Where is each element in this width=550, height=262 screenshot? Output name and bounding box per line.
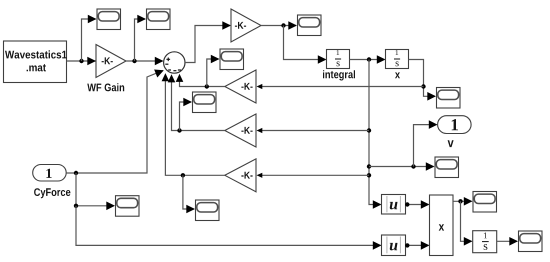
source block Wavestatics1.mat <box>4 41 67 83</box>
wire u2 to product <box>406 241 430 250</box>
gain WF Gain <box>87 45 126 92</box>
node dot after u1 <box>405 202 409 206</box>
integrator block integral (1/s) <box>323 50 355 81</box>
wire Wavestatics1 to WF Gain <box>67 57 97 66</box>
scope Scope1 <box>97 9 121 30</box>
node junction on K1 output <box>205 84 209 88</box>
node junction on CyForce riser <box>74 204 78 208</box>
scope Scope2 <box>147 9 171 30</box>
node junction on CyForce output <box>74 171 78 175</box>
gain K top <box>231 9 261 42</box>
abs block u1 <box>382 195 406 215</box>
sum block <box>164 52 185 73</box>
node junction position feedback <box>421 84 425 88</box>
wire WF Gain to sum <box>126 57 164 66</box>
wire gain K3 output to sum bottom input 1 <box>162 73 225 175</box>
abs block u2 <box>382 235 406 256</box>
node junction on K3 output <box>181 173 185 177</box>
scope ScopeC <box>196 200 220 221</box>
scope ScopeF <box>519 231 543 252</box>
node junction on K2 output <box>177 128 181 132</box>
node junction on top gain output <box>281 23 285 27</box>
node junction to v riser <box>411 164 415 168</box>
wire product to scope ScopeE <box>453 197 473 206</box>
wire branch up to scope ScopeA <box>207 55 220 87</box>
scope ScopeA <box>220 49 244 70</box>
scope ScopeD <box>116 196 140 217</box>
wire CyForce down to scope ScopeD <box>76 173 115 210</box>
wire CyForce to sum diagonal input <box>66 66 165 173</box>
gain K2 (left pointing) <box>225 114 256 147</box>
input port CyForce <box>33 165 71 199</box>
wire velocity to gain K2 <box>257 128 370 133</box>
wire branch up to scope Scope1 <box>82 15 97 61</box>
node junction velocity to gain K2 <box>367 128 371 132</box>
node dot after u2 <box>405 243 409 247</box>
wire position feedback to gain K1 <box>257 84 424 89</box>
scope ScopeB <box>193 92 217 113</box>
wire gain K2 output to sum bottom input 2 <box>168 74 225 130</box>
wire branch up to scope ScopeB <box>180 98 193 131</box>
wire up to output port v <box>414 120 438 166</box>
node junction on product output <box>458 199 462 203</box>
node junction on WF Gain output <box>132 59 136 63</box>
wire x output down to scope Scope4 <box>409 60 437 101</box>
wire top gain to scope Scope3 <box>261 21 297 30</box>
wire velocity riser to abs u1 <box>369 60 382 209</box>
node junction on Wavestatics output <box>79 59 83 63</box>
wire u1 to product <box>406 200 430 209</box>
node junction velocity to v output <box>367 164 371 168</box>
wire branch down to scope ScopeC <box>183 175 195 213</box>
output port v <box>438 116 472 147</box>
wire 1/s to scope ScopeF <box>497 237 518 246</box>
scope Scope4 <box>437 88 461 109</box>
integrator block 1/s bottom <box>473 231 497 253</box>
wire velocity to scope Scope5 <box>369 162 435 171</box>
wire velocity to gain K3 <box>257 173 370 178</box>
wire product down to integrator 1/s <box>461 201 473 245</box>
wire branch up to scope Scope2 <box>135 15 147 61</box>
node junction velocity <box>367 57 371 61</box>
integrator block x (1/s) <box>386 50 409 79</box>
node junction velocity to gain K3 <box>367 173 371 177</box>
wire sum output up to top gain <box>185 21 231 62</box>
scope ScopeE <box>473 192 497 213</box>
wire top gain output down to integral <box>284 26 327 64</box>
gain K1 (left pointing) <box>225 70 256 103</box>
wire gain K1 output to sum bottom input 3 <box>176 74 225 87</box>
wire integral to integrator x <box>350 55 386 64</box>
wire CyForce bottom run to abs u2 <box>76 206 382 250</box>
scope Scope3 <box>298 15 322 36</box>
product block x <box>430 195 454 256</box>
gain K3 (left pointing) <box>225 159 256 192</box>
scope Scope5 <box>435 157 459 178</box>
